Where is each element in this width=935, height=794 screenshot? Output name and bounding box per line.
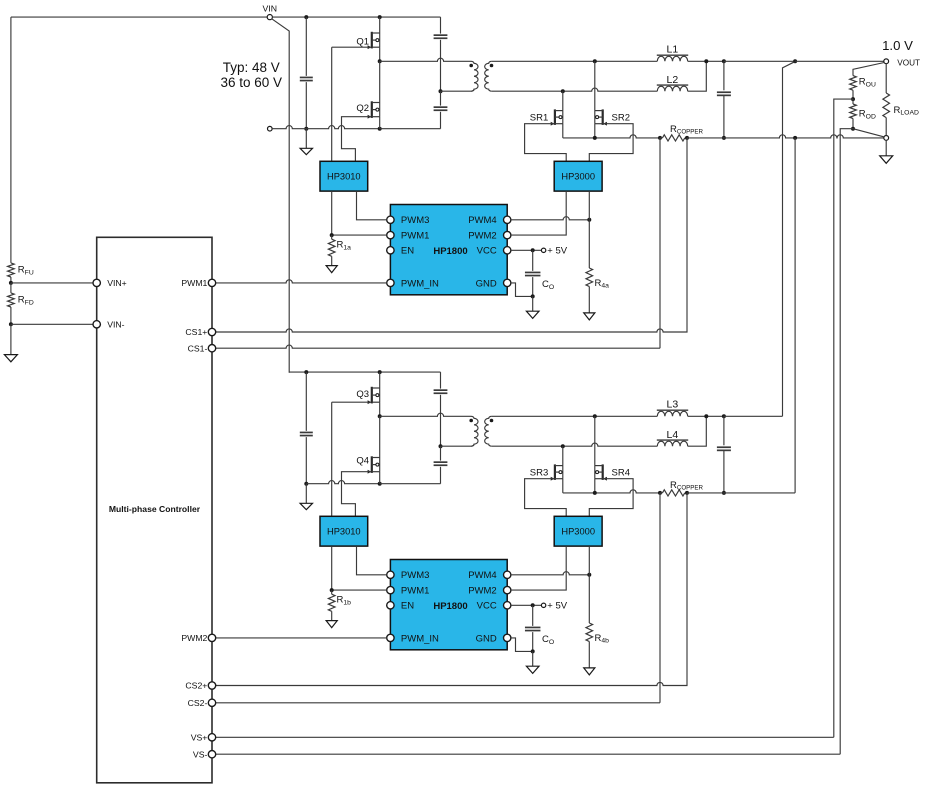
- terminal +5V: [541, 248, 545, 252]
- resistor R4a: [586, 220, 593, 313]
- svg-text:+ 5V: + 5V: [547, 246, 567, 257]
- capacitor input bypass: [300, 372, 313, 484]
- svg-text:VIN+: VIN+: [107, 278, 127, 288]
- junction primary return: [439, 89, 443, 93]
- label +5V: [547, 246, 567, 257]
- label Co: [542, 634, 554, 646]
- wire SR1 gate route: [525, 124, 567, 162]
- junction divider mid: [851, 97, 855, 101]
- resistor R1b: [328, 590, 335, 621]
- label Q4: [356, 456, 369, 467]
- wire Q2 drain: [379, 61, 381, 102]
- transistor Q2: [368, 101, 380, 118]
- wire SR2 source: [594, 124, 596, 138]
- junction SR2 source: [593, 136, 597, 140]
- resistor RFD: [8, 283, 15, 324]
- transformer T2: [441, 416, 494, 446]
- junction SR3 drain: [561, 444, 565, 448]
- svg-text:L2: L2: [667, 74, 679, 86]
- junction VIN- tap: [9, 322, 13, 326]
- wire top rail right of VIN: [272, 16, 440, 18]
- svg-text:L4: L4: [667, 429, 679, 441]
- wire SR1 source: [562, 124, 564, 138]
- svg-text:Typ: 48 V: Typ: 48 V: [223, 60, 280, 75]
- wire divider bottom to return: [853, 129, 884, 137]
- terminal +5V: [541, 603, 545, 607]
- wire SR4 gate route: [589, 479, 633, 517]
- wire bottom input rail: [272, 126, 380, 129]
- wire SR1 drain: [562, 91, 564, 110]
- transistor Q4: [368, 456, 380, 473]
- junction PWM4 R4a: [587, 218, 591, 222]
- wire bottom input rail: [306, 481, 379, 484]
- wire GND pin route: [511, 283, 533, 297]
- wire VIN slant and drop to phase 2: [272, 19, 290, 373]
- wire Q3 gate drop to driver: [331, 402, 333, 516]
- wire PWM1 to HP3010: [332, 191, 387, 235]
- ground RFD: [4, 324, 17, 362]
- label SR4: [612, 467, 630, 478]
- junction R1b: [330, 588, 334, 592]
- label ROD: [859, 109, 876, 121]
- junction SR4 drain: [593, 414, 597, 418]
- wire PWM2 pin to HP3000: [511, 546, 566, 590]
- driver HP3010 U2: [320, 161, 368, 191]
- wire SR source rail: [563, 490, 660, 493]
- svg-text:Q4: Q4: [356, 456, 369, 467]
- label L4: [667, 429, 679, 441]
- wire secondary top lead: [492, 415, 658, 417]
- junction SR4 source: [593, 491, 597, 495]
- svg-text:PWM3: PWM3: [401, 570, 430, 581]
- controller HP1800 U1: [390, 205, 507, 295]
- terminal input return: [268, 126, 273, 131]
- svg-text:PWM1: PWM1: [401, 586, 430, 597]
- driver HP3000 U3: [554, 161, 602, 191]
- wire phase1 output row: [724, 60, 795, 62]
- junction input cap C5: [304, 370, 308, 374]
- junction VCC Co: [531, 248, 535, 252]
- wire phase1 gnd rail: [687, 135, 884, 138]
- label ROU: [859, 77, 876, 89]
- label RFD: [18, 295, 34, 307]
- capacitor output C4: [717, 61, 731, 138]
- svg-text:+ 5V: + 5V: [547, 601, 567, 612]
- wire CS1+ sense drop: [216, 138, 687, 332]
- svg-text:PWM_IN: PWM_IN: [401, 633, 439, 644]
- transformer T1: [441, 61, 494, 91]
- svg-text:HP1800: HP1800: [433, 601, 467, 612]
- svg-text:PWM_IN: PWM_IN: [401, 278, 439, 289]
- wire CS2- sense drop: [659, 493, 661, 703]
- svg-text:VIN: VIN: [263, 4, 277, 14]
- wire VS- row: [216, 753, 841, 755]
- wire PWM3 to HP3010: [357, 546, 387, 575]
- transistor SR1: [551, 109, 563, 125]
- wire left feed drop: [10, 17, 12, 263]
- wire Q4 source: [379, 472, 381, 484]
- junction VIN+ tap: [9, 281, 13, 285]
- transistor SR2: [595, 109, 607, 125]
- junction gnd rail link: [793, 136, 797, 140]
- junction GND Co: [531, 649, 535, 653]
- wire HP3000 to R4a junction: [588, 191, 590, 220]
- wire SR2 gate route: [589, 124, 633, 162]
- wire SR source rail: [563, 135, 660, 138]
- wire after L4: [688, 416, 707, 446]
- svg-text:VS+: VS+: [191, 732, 208, 742]
- wire midpoint to transformer primary: [380, 58, 471, 61]
- svg-text:VOUT: VOUT: [897, 58, 920, 67]
- svg-text:VCC: VCC: [477, 246, 497, 257]
- wire Q1 drain: [379, 17, 381, 33]
- wire SR3 gate route: [525, 479, 567, 517]
- wire Q3 gate: [332, 401, 371, 403]
- wire PWM2 to PWM_IN: [216, 637, 387, 639]
- wire Q1 source to midpoint: [379, 47, 381, 61]
- svg-text:36 to 60 V: 36 to 60 V: [221, 75, 283, 90]
- wire Q1 gate drop to driver: [331, 47, 333, 161]
- label L3: [667, 399, 679, 411]
- wire CS1- sense drop: [659, 138, 661, 348]
- svg-text:VIN-: VIN-: [107, 319, 124, 329]
- capacitor Co C7: [525, 605, 541, 651]
- label SR3: [530, 467, 548, 478]
- wire CS2- row: [216, 702, 660, 704]
- wire output row to VOUT: [795, 60, 884, 62]
- driver HP3000 U7: [554, 516, 602, 546]
- wire Q1 gate: [332, 46, 371, 48]
- junction R_COPPER left: [658, 136, 662, 140]
- wire phase2 output link: [724, 415, 783, 417]
- ground Co: [526, 651, 539, 673]
- wire VCC to +5V: [511, 604, 542, 606]
- junction inductor join: [704, 414, 708, 418]
- wire PWM4 pin to HP3000: [511, 217, 589, 220]
- svg-text:SR4: SR4: [612, 467, 630, 478]
- svg-text:PWM3: PWM3: [401, 215, 430, 226]
- driver HP3010 U6: [320, 516, 368, 546]
- wire top VIN rail: [11, 16, 268, 18]
- svg-text:VCC: VCC: [477, 601, 497, 612]
- ground R1a: [326, 266, 337, 273]
- svg-text:Q1: Q1: [356, 36, 369, 47]
- wire HP3000 to R4b junction: [588, 546, 590, 575]
- wire Q4 gate route: [342, 472, 371, 517]
- resistor R1a: [328, 235, 335, 266]
- capacitor Co C3: [525, 250, 541, 296]
- wire PWM1 to PWM_IN: [216, 280, 387, 283]
- wire after L2: [688, 61, 707, 91]
- svg-text:SR3: SR3: [530, 467, 548, 478]
- label R4a: [595, 278, 610, 290]
- junction inductor join: [704, 59, 708, 63]
- svg-text:HP3000: HP3000: [561, 171, 595, 181]
- junction SR2 drain: [593, 59, 597, 63]
- label Q1: [356, 36, 369, 47]
- ground output: [880, 140, 893, 163]
- svg-text:CS2+: CS2+: [185, 681, 207, 691]
- wire divider bottom tap: [840, 129, 853, 755]
- wire GND pin route: [511, 638, 533, 652]
- ground R4a: [584, 313, 595, 320]
- junction Q2 source: [378, 127, 382, 131]
- wire secondary top lead: [492, 60, 658, 62]
- junction half-bridge midpoint: [378, 59, 382, 63]
- resistor ROD: [850, 99, 857, 129]
- wire VOUT to ROU: [853, 63, 884, 76]
- resistor R_COPPER: [660, 490, 687, 496]
- resistor R_COPPER: [660, 135, 687, 141]
- svg-text:GND: GND: [476, 278, 497, 289]
- wire SR3 source: [562, 479, 564, 493]
- svg-text:Q2: Q2: [356, 103, 369, 114]
- transistor SR3: [551, 464, 563, 480]
- label RFU: [18, 265, 34, 277]
- junction VCC Co: [531, 603, 535, 607]
- wire Q2 source: [379, 117, 381, 129]
- label Q3: [356, 389, 369, 400]
- controller HP1800 U5: [390, 560, 507, 650]
- wire SR2 drain: [594, 61, 596, 110]
- wire CS1- row: [216, 345, 660, 348]
- junction divider bottom: [851, 127, 855, 131]
- junction input cap to rail: [304, 127, 308, 131]
- label SR1: [530, 112, 548, 123]
- resistor R4b: [586, 575, 593, 668]
- wire secondary bottom lead: [492, 88, 658, 91]
- svg-text:EN: EN: [401, 601, 414, 612]
- label Typ 48V: [221, 60, 283, 90]
- svg-text:EN: EN: [401, 246, 414, 257]
- ground input rail: [300, 129, 312, 155]
- wire PWM3 to HP3010: [357, 191, 387, 220]
- label VOUT: [897, 58, 920, 67]
- wire secondary bottom lead: [492, 443, 658, 446]
- wire after L3: [688, 415, 724, 417]
- label R1a: [337, 240, 352, 252]
- capacitor half-bridge lower: [434, 91, 448, 129]
- label Q2: [356, 103, 369, 114]
- wire Q3 drain: [379, 372, 381, 388]
- svg-text:PWM2: PWM2: [468, 231, 497, 242]
- wire Q3 source to midpoint: [379, 402, 381, 416]
- svg-text:HP3010: HP3010: [327, 171, 361, 181]
- svg-text:PWM1: PWM1: [181, 278, 207, 288]
- junction R_COPPER left: [658, 491, 662, 495]
- wire SR4 drain: [594, 416, 596, 465]
- capacitor input bypass: [300, 17, 313, 129]
- svg-text:PWM4: PWM4: [468, 570, 497, 581]
- junction R_COPPER right: [685, 136, 689, 140]
- capacitor half-bridge upper: [434, 17, 448, 91]
- wire VIN- row: [11, 323, 93, 325]
- svg-text:HP3010: HP3010: [327, 526, 361, 536]
- label 1.0 V: [882, 38, 913, 53]
- label Co: [542, 279, 554, 291]
- label R_COPPER: [670, 480, 704, 492]
- junction primary return: [439, 444, 443, 448]
- svg-text:HP3000: HP3000: [561, 526, 595, 536]
- wire VIN+ row: [11, 282, 93, 284]
- wire gnd rail link down: [794, 138, 796, 493]
- transistor Q1: [368, 32, 380, 49]
- ground input rail: [300, 484, 312, 510]
- junction output cap top: [722, 414, 726, 418]
- ground R1b: [326, 621, 337, 628]
- wire bottom rail to cap leg: [380, 483, 441, 485]
- label R_COPPER: [670, 124, 704, 136]
- svg-text:PWM2: PWM2: [181, 633, 207, 643]
- junction Q3 drain: [378, 370, 382, 374]
- svg-text:1.0 V: 1.0 V: [882, 38, 913, 53]
- svg-text:Q3: Q3: [356, 389, 369, 400]
- wire VCC to +5V: [511, 249, 542, 251]
- svg-text:CS1-: CS1-: [188, 343, 208, 353]
- ground Co: [526, 296, 539, 318]
- svg-text:SR1: SR1: [530, 112, 548, 123]
- svg-text:GND: GND: [476, 633, 497, 644]
- resistor RFU: [8, 263, 15, 283]
- wire phase2 rail to link: [687, 492, 795, 494]
- inductor L3: [657, 410, 688, 416]
- ground R4b: [584, 668, 595, 675]
- svg-text:PWM2: PWM2: [468, 586, 497, 597]
- terminal output return: [884, 136, 889, 141]
- junction R_COPPER right: [685, 491, 689, 495]
- junction R1a: [330, 233, 334, 237]
- junction Q1 drain: [378, 15, 382, 19]
- label SR2: [612, 112, 630, 123]
- wire Q2 gate route: [342, 117, 371, 162]
- transistor Q3: [368, 387, 380, 404]
- junction SR1 drain: [561, 89, 565, 93]
- junction GND Co: [531, 294, 535, 298]
- svg-text:Multi-phase Controller: Multi-phase Controller: [109, 504, 201, 514]
- pins controller: [93, 278, 216, 759]
- junction half-bridge midpoint: [378, 414, 382, 418]
- pins HP1800: [387, 570, 511, 644]
- svg-text:PWM4: PWM4: [468, 215, 497, 226]
- controller Multi-phase Controller: [97, 237, 212, 783]
- wire CS2+ sense drop: [216, 493, 687, 686]
- svg-text:PWM1: PWM1: [401, 231, 430, 242]
- svg-text:CS2-: CS2-: [188, 698, 208, 708]
- svg-text:L3: L3: [667, 399, 679, 411]
- wire midpoint to transformer primary: [380, 413, 471, 416]
- svg-text:SR2: SR2: [612, 112, 630, 123]
- svg-text:L1: L1: [667, 44, 679, 56]
- wire phase2 input rail: [289, 371, 440, 373]
- resistor ROU: [850, 76, 857, 100]
- junction output cap bottom: [722, 491, 726, 495]
- wire PWM2 pin to HP3000: [511, 191, 566, 235]
- transistor SR4: [595, 464, 607, 480]
- wire VS+ row: [216, 736, 834, 738]
- label R4b: [595, 633, 610, 645]
- wire PWM4 pin to HP3000: [511, 572, 589, 575]
- resistor RLOAD: [883, 64, 890, 136]
- wire divider mid tap: [834, 99, 853, 737]
- wire VOUT sense slant drop: [783, 62, 795, 417]
- terminal VIN: [267, 15, 272, 20]
- junction output cap bottom: [722, 136, 726, 140]
- junction PWM4 R4b: [587, 573, 591, 577]
- inductor L4: [657, 440, 688, 446]
- capacitor half-bridge lower: [434, 446, 448, 484]
- wire Q4 drain: [379, 416, 381, 457]
- junction input cap C1: [304, 15, 308, 19]
- svg-text:HP1800: HP1800: [433, 246, 467, 257]
- junction Q4 source: [378, 482, 382, 486]
- wire SR4 source: [594, 479, 596, 493]
- capacitor half-bridge upper: [434, 372, 448, 446]
- label RLOAD: [894, 105, 919, 117]
- junction VOUT sense tap: [793, 59, 797, 63]
- label R1b: [337, 595, 352, 607]
- label +5V: [547, 601, 567, 612]
- label L2: [667, 74, 679, 86]
- capacitor output C8: [717, 416, 731, 493]
- wire SR3 drain: [562, 446, 564, 465]
- wire bottom rail to cap leg: [380, 128, 441, 130]
- junction output cap top: [722, 59, 726, 63]
- svg-text:VS-: VS-: [193, 749, 208, 759]
- inductor L2: [657, 85, 688, 91]
- wire after L1: [688, 60, 724, 62]
- svg-text:CS1+: CS1+: [185, 327, 207, 337]
- junction input cap to rail: [304, 482, 308, 486]
- terminal VOUT: [884, 59, 889, 64]
- inductor L1: [657, 55, 688, 61]
- label VIN: [263, 4, 277, 14]
- wire PWM1 to HP3010: [332, 546, 387, 590]
- pins HP1800: [387, 215, 511, 289]
- label L1: [667, 44, 679, 56]
